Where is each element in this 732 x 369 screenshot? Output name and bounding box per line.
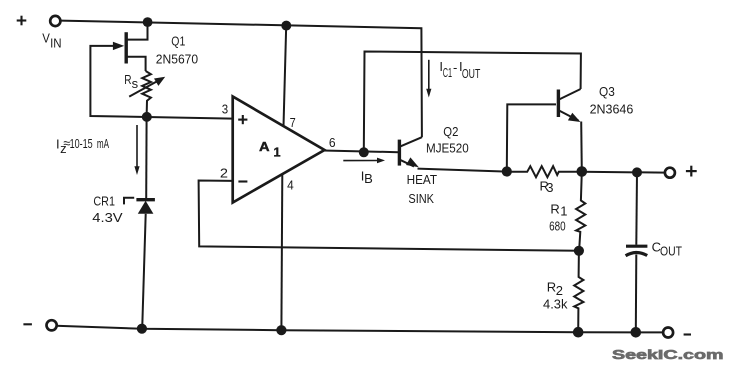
wire: op-amp output pin 6 to Q2 base xyxy=(323,151,399,153)
wire: Q2 emitter to output line xyxy=(418,169,508,172)
label: 2N3646 xyxy=(590,101,634,116)
wire: node A down to CR1 cathode xyxy=(145,117,147,198)
svg-text:10-15: 10-15 xyxy=(70,136,93,151)
svg-text:OUT: OUT xyxy=(660,243,682,258)
transistor Q2 emitter lead with arrow xyxy=(400,157,419,167)
label: pin 7 xyxy=(290,115,296,130)
label: pin 6 xyxy=(329,135,336,150)
label: Q1 xyxy=(171,34,185,49)
svg-text:CR1: CR1 xyxy=(93,194,115,209)
label: 4.3k xyxy=(543,296,568,311)
annotation arrow: IB base current (right) xyxy=(343,158,385,164)
wire: output line from R1 node to + terminal xyxy=(582,171,665,174)
svg-text:I: I xyxy=(56,136,60,151)
transistor Q3 emitter lead with arrow xyxy=(559,111,581,123)
label: 4.3V xyxy=(92,210,123,225)
label: pin 2 xyxy=(220,166,228,181)
svg-text:s: s xyxy=(132,76,139,91)
label: Q2 xyxy=(443,124,458,139)
svg-text:3: 3 xyxy=(222,102,228,117)
junction dot: COUT tap on output line xyxy=(632,167,642,177)
svg-text:mA: mA xyxy=(97,136,109,151)
svg-text:B: B xyxy=(364,171,373,186)
svg-text:1: 1 xyxy=(273,145,280,160)
svg-text:4: 4 xyxy=(287,178,294,193)
label: R1 xyxy=(550,202,567,219)
label: 2N5670 xyxy=(156,52,198,67)
svg-text:1: 1 xyxy=(560,203,567,218)
junction dot: R2 on bottom rail xyxy=(573,327,584,338)
resistor Rs (variable, zigzag) xyxy=(142,71,151,117)
svg-text:7: 7 xyxy=(290,115,296,130)
junction dot: node A (Rs / CR1 / op-amp pin 3) xyxy=(142,112,152,122)
annotation arrow: Iz current (down) xyxy=(134,125,139,175)
wire: COUT top lead xyxy=(635,172,638,244)
label: MJE520 xyxy=(426,141,469,156)
svg-text:C1: C1 xyxy=(443,65,452,80)
wire: Q1 source to Rs xyxy=(127,57,146,71)
wire: Q3 base loop xyxy=(507,104,556,171)
junction dot: pin 7 on top rail xyxy=(281,21,291,31)
svg-text:2N5670: 2N5670 xyxy=(156,52,198,67)
junction dot: COUT on bottom rail xyxy=(631,327,642,338)
svg-text:SINK: SINK xyxy=(408,191,434,206)
svg-text:HEAT: HEAT xyxy=(407,172,438,187)
watermark: SeekIC.com xyxy=(612,347,724,362)
svg-text:Q3: Q3 xyxy=(599,84,615,99)
transistor Q1 channel bar (JFET) xyxy=(124,32,127,63)
svg-text:-: - xyxy=(453,60,457,75)
resistor R2 (zigzag) with wires xyxy=(574,251,583,332)
wire: Q1 gate loop down to node A xyxy=(90,46,232,119)
label: - (bottom right) xyxy=(684,333,691,335)
wire: COUT bottom lead to bottom rail xyxy=(635,255,638,333)
wire: CR1 anode down to bottom rail xyxy=(142,214,146,329)
label: V_IN xyxy=(42,30,61,50)
junction dot: pin 4 on bottom rail xyxy=(276,325,286,335)
label: HEAT xyxy=(407,172,438,187)
junction dot: Q3 base node on output line xyxy=(502,166,512,176)
label: + (output polarity) xyxy=(686,166,697,177)
svg-text:A: A xyxy=(259,139,270,154)
label: R3 xyxy=(540,178,554,194)
capacitor COUT curved bottom plate xyxy=(626,252,648,255)
svg-text:680: 680 xyxy=(549,219,566,234)
label: R2 xyxy=(547,279,563,298)
label: pin 4 xyxy=(287,178,294,193)
svg-text:R: R xyxy=(550,202,559,217)
label: Rs xyxy=(124,72,138,91)
junction dot: feedback node (R1/R2) xyxy=(574,246,584,256)
svg-text:2N3646: 2N3646 xyxy=(590,101,634,116)
label: IC1 - IOUT xyxy=(439,59,480,81)
label: op-amp - input xyxy=(238,180,247,182)
wire: Q1 drain to top rail xyxy=(127,22,148,39)
annotation arrow: IC1-IOUT current (down) xyxy=(426,60,431,98)
resistor R1 (zigzag) with wires xyxy=(576,172,585,251)
resistor R3 (zigzag) with wires xyxy=(507,166,582,177)
diode CR1: anode triangle (points up) xyxy=(138,201,154,214)
diode CR1 (zener): cathode bar xyxy=(136,198,155,201)
svg-text:MJE520: MJE520 xyxy=(426,141,469,156)
label: A1 xyxy=(259,139,281,159)
label: pin 3 xyxy=(222,102,228,117)
capacitor COUT top plate xyxy=(626,245,647,248)
svg-text:4.3V: 4.3V xyxy=(92,210,123,225)
terminal: output + (open circle) xyxy=(665,168,675,178)
label: CR1 xyxy=(93,194,115,209)
wire: Q3 emitter down to output line xyxy=(580,122,583,172)
svg-text:OUT: OUT xyxy=(462,66,480,81)
svg-text:6: 6 xyxy=(329,135,336,150)
arrowhead: Q1 gate (points right into channel) xyxy=(113,42,124,50)
label: COUT xyxy=(652,239,682,258)
junction dot: Q3 emitter / R3 / R1 node xyxy=(577,166,588,177)
junction dot: CR1 on bottom rail xyxy=(137,324,147,334)
diode CR1: label leader mark xyxy=(124,198,134,205)
junction dot: output node at pin 6 wire xyxy=(359,147,369,157)
svg-text:SeekIC.com: SeekIC.com xyxy=(612,347,724,362)
label: - (bottom left) xyxy=(23,323,32,325)
wire: pin 7 to top rail xyxy=(284,26,287,127)
transistor Q3 collector lead xyxy=(559,89,581,100)
terminal: bottom-right negative (open circle) xyxy=(663,328,673,338)
label: op-amp + input xyxy=(238,115,247,124)
arrow through Rs (variable-resistor arrow) xyxy=(129,77,165,97)
svg-text:3: 3 xyxy=(546,180,553,195)
terminal: bottom-left negative (open circle) xyxy=(47,320,57,330)
svg-text:IN: IN xyxy=(50,35,62,50)
svg-text:Q2: Q2 xyxy=(443,124,458,139)
svg-text:R: R xyxy=(124,72,131,87)
wire: pin 4 down to bottom rail xyxy=(280,174,283,330)
wire: top rail from V_IN terminal to Q2 collector drop xyxy=(61,21,422,138)
svg-text:Q1: Q1 xyxy=(171,34,185,49)
wire: bottom rail xyxy=(56,326,663,333)
label: 680 xyxy=(549,219,566,234)
svg-text:V: V xyxy=(42,30,50,45)
terminal: V_IN positive input (open circle) xyxy=(50,16,60,26)
svg-text:4.3k: 4.3k xyxy=(543,296,568,311)
svg-text:R: R xyxy=(547,279,556,294)
label: + (input polarity) xyxy=(17,16,27,26)
label: SINK xyxy=(408,191,434,206)
label: Iz = 10-15 mA xyxy=(56,136,109,156)
wire: pin 2 feedback loop to R1/R2 divider xyxy=(199,181,579,251)
label: IB xyxy=(361,168,373,186)
op-amp A1 triangle xyxy=(233,97,325,203)
label: Q3 xyxy=(599,84,615,99)
svg-text:2: 2 xyxy=(220,166,228,181)
transistor Q3 base bar xyxy=(557,90,560,118)
wire: output node up and across to Q3 collector xyxy=(364,52,581,153)
junction dot: Q1 drain on top rail xyxy=(143,17,153,27)
transistor Q2 base bar xyxy=(398,140,401,166)
transistor Q2 collector lead xyxy=(400,137,422,146)
